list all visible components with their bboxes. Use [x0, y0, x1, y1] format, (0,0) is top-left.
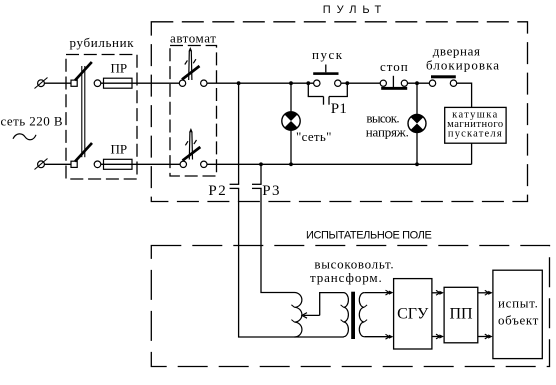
svg-text:сеть 220 В: сеть 220 В [1, 114, 63, 129]
circuit breaker QF1 pole 1: blade [182, 66, 200, 80]
pushbutton SB2 стоп: stem [392, 76, 394, 87]
pushbutton SB1 пуск: right contact [335, 80, 341, 86]
relay contact P3 [252, 184, 262, 188]
knife switch S1 pole 1: blade [75, 62, 92, 80]
wire: T2 secondary to СГУ (bottom) with arrow [364, 336, 389, 338]
junction: top rail / высок.напряж. lamp [415, 81, 419, 85]
svg-text:автомат: автомат [170, 31, 216, 46]
pushbutton SB2 стоп: right contact [401, 80, 407, 86]
block ПП [444, 287, 478, 343]
block испыт. объект [493, 270, 542, 358]
svg-text:СГУ: СГУ [397, 306, 429, 323]
junction: bottom rail / высок lamp [415, 162, 419, 166]
AC source symbol ~ [13, 134, 36, 140]
circuit breaker QF1 pole 2: blade [183, 147, 201, 161]
T2 secondary cusp ticks [364, 305, 367, 307]
coil KM1 box: катушка магнитного пускателя [445, 107, 506, 143]
door interlock switch SQ1: bar (NC) [431, 75, 456, 78]
junction: top rail / P1 right [345, 81, 349, 85]
pushbutton SB2 стоп: actuator bar (below, NC) [381, 87, 407, 90]
junction: top rail / P2 branch [237, 81, 241, 85]
knife switch S1 pole 2: blade [75, 143, 92, 162]
knife switch S1 pole 2: pivot contact [71, 161, 77, 167]
enclosure: рубильник (dashed box) [66, 55, 137, 180]
svg-text:P3: P3 [262, 183, 281, 199]
pushbutton SB1 пуск: left contact [314, 80, 320, 86]
circuit breaker QF1 pole 2: trip arrow [185, 128, 196, 160]
svg-text:стоп: стоп [380, 59, 409, 74]
svg-text:испыт.: испыт. [498, 296, 539, 311]
junction: bottom rail / P3 [259, 162, 263, 166]
enclosure: ИСПЫТАТЕЛЬНОЕ ПОЛЕ (dashed box) [151, 246, 549, 367]
HV transformer T2 secondary winding [359, 293, 364, 337]
wire: terminal X1 to knife switch [44, 82, 71, 84]
circuit breaker QF1 pole 1: trip arrow [185, 47, 196, 80]
knife switch S1 mechanical linkage (double line) [81, 66, 83, 157]
terminal X2 (bottom input) [38, 161, 45, 168]
wire: top rail drop to bottom rail at P2 column [238, 83, 240, 184]
svg-text:блокировка: блокировка [426, 58, 500, 73]
wire: wiper to HV transformer primary [320, 293, 344, 316]
HV transformer T2 core [351, 292, 355, 339]
circuit breaker QF1 pole 1: left contact [179, 80, 185, 86]
lamp HL1 "сеть" [282, 112, 300, 130]
svg-text:напряж.: напряж. [366, 124, 409, 139]
fuse FU1 (ПР) terminal circle [94, 80, 101, 87]
fuse FU2 body [104, 159, 133, 169]
junction: top rail / сеть lamp [289, 81, 293, 85]
variac cusp ticks [291, 305, 294, 308]
pushbutton SB1 пуск: actuator bar [313, 72, 338, 75]
svg-text:объект: объект [498, 313, 539, 328]
door interlock switch SQ1: left contact [429, 80, 435, 86]
variac wiper arrow [302, 313, 320, 319]
svg-text:ПП: ПП [449, 306, 473, 323]
wire: terminal X2 to knife switch [44, 163, 71, 165]
wire through fuse FU1 [101, 82, 180, 84]
svg-text:трансформ.: трансформ. [310, 270, 383, 285]
relay contact P3 upper lead [260, 164, 262, 184]
svg-text:рубильник: рубильник [70, 35, 135, 50]
wire: bottom rail [207, 163, 472, 165]
svg-text:"сеть": "сеть" [296, 129, 332, 144]
wire: стоп to дверная блокировка [408, 82, 430, 84]
T2 primary cusp ticks [341, 305, 344, 307]
junction: top rail / P1 left [306, 81, 310, 85]
relay contact P1 branch wires [308, 83, 348, 105]
wire: СГУ to ПП (top) with arrow [432, 292, 440, 294]
svg-text:ПУЛЬТ: ПУЛЬТ [323, 4, 388, 16]
knife switch S1 pole 1: pivot contact [71, 80, 77, 86]
wire: P3 to variac top [261, 188, 295, 292]
enclosure: автомат (dashed box) [170, 46, 217, 177]
lamp HL2 высок.напряж. [408, 114, 426, 132]
fuse FU1 body [104, 78, 133, 88]
block СГУ [394, 279, 432, 349]
svg-text:ПР: ПР [111, 142, 128, 157]
lamp HL1 "сеть": top lead [290, 83, 292, 112]
svg-text:ПР: ПР [111, 61, 128, 76]
svg-text:дверная: дверная [433, 44, 481, 59]
door interlock switch SQ1: right contact [450, 80, 456, 86]
circuit breaker QF1 pole 1: right contact [201, 80, 207, 86]
wire: ПП to испыт.объект (bottom) with arrow [478, 336, 489, 338]
wire through fuse FU2 [101, 163, 181, 165]
fuse FU2 (ПР) terminal circle [94, 161, 101, 168]
wire: ПП to испыт.объект (top) with arrow [478, 292, 489, 294]
wire: SQ1 to coil KM1 [457, 83, 472, 107]
circuit breaker QF1 pole 2: left contact [180, 161, 186, 167]
svg-text:пускателя: пускателя [448, 128, 503, 139]
pushbutton SB2 стоп: left contact [380, 80, 386, 86]
junction: bottom rail / сеть lamp [289, 162, 293, 166]
svg-text:высок.: высок. [366, 111, 399, 126]
svg-text:ИСПЫТАТЕЛЬНОЕ ПОЛЕ: ИСПЫТАТЕЛЬНОЕ ПОЛЕ [306, 230, 431, 242]
relay contact P2 [230, 184, 240, 188]
svg-text:P2: P2 [208, 183, 227, 199]
lamp HL2 bottom lead [416, 132, 418, 164]
svg-text:пуск: пуск [312, 47, 344, 62]
wire: P2 to test-field bottom wire [239, 188, 344, 337]
svg-text:P1: P1 [331, 101, 348, 117]
wire: coil KM1 to bottom rail [471, 143, 473, 164]
wire: пуск to стоп [341, 82, 380, 84]
pushbutton SB1 пуск: stem [325, 65, 327, 73]
enclosure: ПУЛЬТ (dashed box) [151, 22, 527, 202]
wire: СГУ to ПП (bottom) with arrow [432, 336, 440, 338]
circuit breaker QF1 pole 2: right contact [201, 161, 207, 167]
wire: T2 secondary to СГУ (top) with arrow [364, 292, 389, 294]
lamp HL1 bottom lead [290, 130, 292, 164]
HV transformer T2 primary winding [344, 293, 349, 337]
lamp HL2 высок.напряж.: top lead [416, 83, 418, 115]
wire: top rail QF1 to пуск button [207, 82, 314, 84]
terminal X1 (top input) [38, 80, 45, 87]
autotransformer T1 (variac) winding [295, 293, 302, 338]
